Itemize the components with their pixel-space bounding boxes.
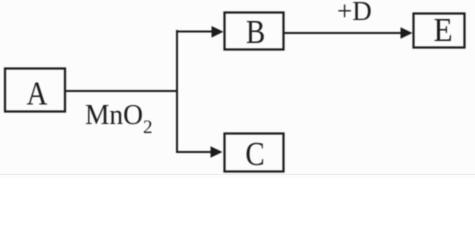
box A [5,69,65,112]
arrowhead into C [211,146,223,158]
svg-text:E: E [433,11,452,48]
arrowhead into E [401,27,413,39]
box C [225,134,284,172]
box E [414,14,465,48]
box B [225,13,284,50]
svg-text:C: C [245,135,264,172]
wire junction to B [176,31,213,33]
wire vertical branch [176,30,178,152]
wire B to E [284,32,402,34]
svg-text:MnO2: MnO2 [85,99,153,138]
arrowhead into B [212,26,224,38]
wire junction to C [176,151,212,153]
svg-text:+D: +D [337,0,372,26]
wire A to junction [65,90,178,92]
svg-text:A: A [27,75,48,112]
svg-text:B: B [246,13,265,50]
faint scan artifact line at bottom [0,174,475,176]
